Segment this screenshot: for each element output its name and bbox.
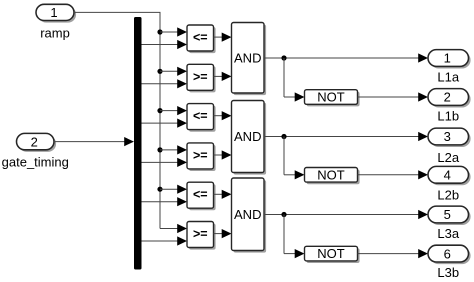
outport 5 (L3a), oval port block [428, 206, 471, 241]
svg-text:L1b: L1b [437, 109, 459, 124]
junction dot on ramp bus for comparator2 [157, 69, 162, 74]
wire: ramp bus turns right into comparator6 input1 with arrowhead [160, 224, 187, 233]
wire: ramp bus to comparator2 input1 with arrowhead [160, 67, 187, 76]
wire: ramp bus to comparator4 input1 with arrowhead [160, 145, 187, 154]
outport 3 (L2a), oval port block [428, 128, 471, 165]
wire: inport2 to mux input with arrowhead [54, 137, 134, 146]
wire: ramp bus to comparator1 input1 with arrowhead [160, 27, 187, 36]
logical operator block AND1 [232, 23, 267, 96]
svg-text:gate_timing: gate_timing [2, 155, 69, 170]
wire: Compare1 output to AND1 input1 with arrowhead [214, 33, 232, 42]
wire: Compare5 output to AND3 input1 with arrowhead [214, 190, 232, 199]
svg-text:>=: >= [193, 227, 208, 241]
svg-text:>=: >= [193, 70, 208, 84]
svg-text:1: 1 [50, 5, 57, 20]
wire: mux output 5 to comparator5 input2 with arrowhead [142, 197, 188, 206]
wire: mux output 1 to comparator1 input2 with arrowhead [142, 40, 188, 49]
logical operator block NOT3 [305, 246, 360, 263]
svg-text:ramp: ramp [40, 25, 70, 40]
svg-text:5: 5 [444, 207, 451, 222]
wire: Compare6 output to AND3 input2 with arrowhead [214, 229, 232, 238]
svg-text:2: 2 [31, 134, 38, 149]
junction dot on AND2 output wire [281, 134, 286, 139]
wire: AND3 output to outport 5 with arrowhead [264, 210, 428, 219]
relational operator block Compare5 (<=) [187, 182, 216, 210]
wire: inport1 to ramp bus (right then down) [74, 12, 161, 228]
wire: NOT3 output to outport 6 with arrowhead [358, 249, 429, 258]
svg-text:AND: AND [234, 50, 261, 65]
inport 1 (ramp), oval port block [36, 4, 76, 40]
svg-text:NOT: NOT [317, 246, 345, 261]
wire: mux output 2 to comparator2 input2 with arrowhead [142, 79, 188, 88]
wire: Compare4 output to AND2 input2 with arrowhead [214, 150, 232, 159]
svg-text:2: 2 [444, 90, 451, 105]
junction dot on ramp bus for comparator5 [157, 187, 162, 192]
svg-text:AND: AND [234, 207, 261, 222]
logical operator block AND3 [232, 178, 267, 253]
wire: AND1 output to outport 1 with arrowhead [264, 53, 428, 62]
svg-text:6: 6 [444, 246, 451, 261]
svg-text:L3a: L3a [437, 226, 459, 241]
relational operator block Compare3 (<=) [187, 104, 216, 132]
junction dot on ramp bus for comparator1 [157, 29, 162, 34]
logical operator block NOT2 [305, 167, 360, 184]
outport 4 (L2b), oval port block [428, 166, 471, 202]
wire: NOT1 output to outport 2 with arrowhead [358, 92, 429, 101]
svg-text:<=: <= [193, 31, 208, 45]
svg-text:L2b: L2b [437, 187, 459, 202]
outport 2 (L1b), oval port block [428, 89, 471, 124]
wire: AND2 output to outport 3 with arrowhead [264, 132, 428, 141]
svg-text:1: 1 [444, 51, 451, 66]
svg-text:3: 3 [444, 129, 451, 144]
junction dot on ramp bus for comparator4 [157, 147, 162, 152]
wire: mux output 4 to comparator4 input2 with arrowhead [142, 158, 188, 167]
wire: Compare2 output to AND1 input2 with arrowhead [214, 72, 232, 81]
logical operator block NOT1 [305, 90, 360, 107]
junction dot on AND3 output wire [281, 212, 286, 217]
wire: mux output 3 to comparator3 input2 with arrowhead [142, 119, 188, 128]
svg-text:L3b: L3b [437, 265, 459, 280]
relational operator block Compare6 (>=) [187, 222, 216, 250]
mux bar (black vertical bar) [134, 17, 142, 270]
outport 1 (L1a), oval port block [428, 50, 471, 85]
relational operator block Compare1 (<=) [187, 25, 216, 53]
svg-text:<=: <= [193, 188, 208, 202]
wire: ramp bus to comparator5 input1 with arrowhead [160, 185, 187, 194]
wire: branch down from AND2 output to NOT2 input with arrowhead [284, 137, 305, 180]
wire: Compare3 output to AND2 input1 with arrowhead [214, 111, 232, 120]
wire: NOT2 output to outport 4 with arrowhead [358, 170, 429, 179]
inport 2 (gate_timing), oval port block [2, 133, 69, 169]
relational operator block Compare4 (>=) [187, 143, 216, 171]
svg-text:<=: <= [193, 109, 208, 123]
svg-text:AND: AND [234, 129, 261, 144]
logical operator block AND2 [232, 101, 267, 175]
wire: ramp bus to comparator3 input1 with arrowhead [160, 106, 187, 115]
outport 6 (L3b), oval port block [428, 245, 471, 280]
svg-text:NOT: NOT [317, 167, 345, 182]
svg-text:4: 4 [444, 168, 451, 183]
svg-text:NOT: NOT [317, 90, 345, 105]
svg-text:>=: >= [193, 148, 208, 162]
svg-text:L2a: L2a [437, 150, 459, 165]
wire: mux output 6 to comparator6 input2 with arrowhead [142, 236, 188, 245]
svg-text:L1a: L1a [437, 70, 459, 85]
relational operator block Compare2 (>=) [187, 64, 216, 92]
wire: branch down from AND3 output to NOT3 input with arrowhead [284, 215, 305, 259]
junction dot on AND1 output wire [281, 55, 286, 60]
junction dot on ramp bus for comparator3 [157, 108, 162, 113]
wire: branch down from AND1 output to NOT1 input with arrowhead [284, 58, 305, 102]
